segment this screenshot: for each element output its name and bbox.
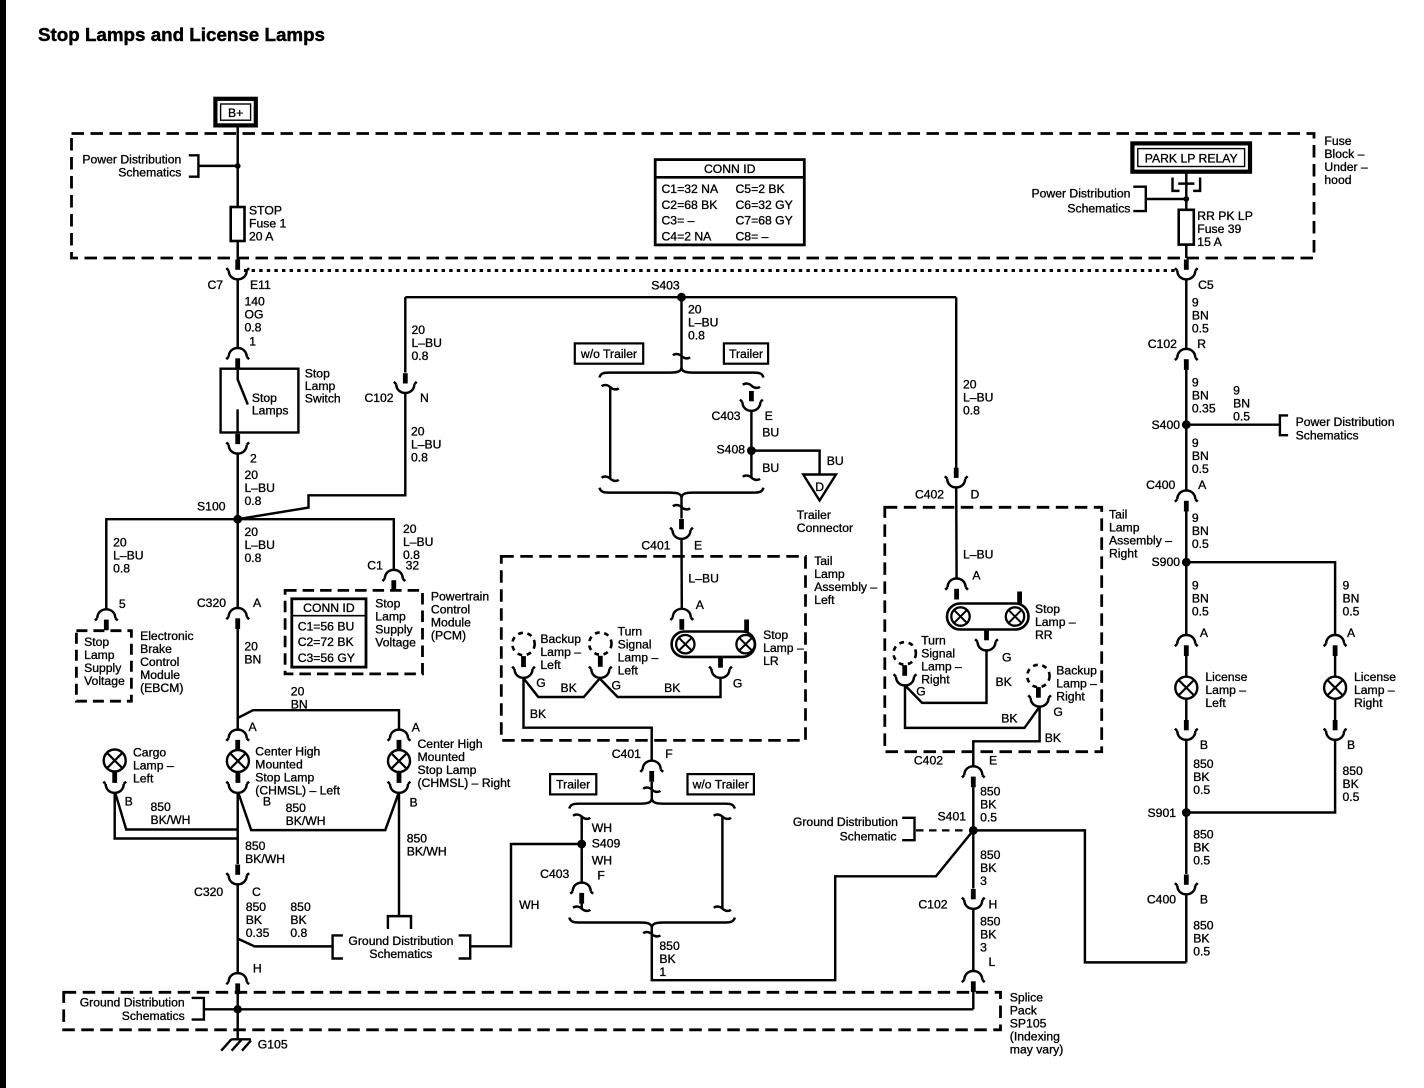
svg-text:License: License bbox=[1205, 670, 1247, 684]
stop lamp RR dual filament bbox=[947, 592, 1076, 643]
svg-text:L–BU: L–BU bbox=[963, 391, 994, 405]
svg-text:A: A bbox=[1200, 626, 1209, 640]
turn signal left pin bbox=[598, 656, 603, 667]
svg-text:Schematics: Schematics bbox=[1067, 201, 1130, 215]
backup right pin bbox=[1036, 687, 1041, 698]
svg-text:Schematics: Schematics bbox=[122, 1009, 185, 1023]
svg-text:CONN ID: CONN ID bbox=[704, 162, 756, 176]
EBCM dashed box: stop lamp supply voltage bbox=[76, 631, 131, 702]
svg-text:850: 850 bbox=[286, 801, 307, 815]
svg-text:G105: G105 bbox=[258, 1037, 288, 1051]
turn signal right connector G bbox=[894, 674, 926, 698]
connector C1 pin 32 (PCM) bbox=[367, 559, 419, 591]
svg-text:WH: WH bbox=[519, 898, 539, 912]
svg-text:SP105: SP105 bbox=[1010, 1016, 1047, 1030]
svg-text:20: 20 bbox=[963, 378, 977, 392]
svg-text:C400: C400 bbox=[1146, 478, 1175, 492]
svg-text:Left: Left bbox=[540, 658, 561, 672]
wire 850 BK 0.8 branch to GDS bracket bbox=[238, 939, 333, 947]
wire below C320-C bbox=[236, 884, 238, 973]
svg-text:BN: BN bbox=[1192, 388, 1209, 402]
svg-text:Control: Control bbox=[140, 655, 179, 669]
svg-text:PARK LP RELAY: PARK LP RELAY bbox=[1145, 151, 1238, 165]
svg-text:C3= –: C3= – bbox=[662, 214, 695, 228]
svg-text:0.5: 0.5 bbox=[1343, 790, 1360, 804]
svg-text:S900: S900 bbox=[1152, 555, 1181, 569]
svg-text:Ground Distribution: Ground Distribution bbox=[793, 815, 898, 829]
svg-text:BK: BK bbox=[246, 913, 262, 927]
svg-text:850: 850 bbox=[980, 784, 1001, 798]
svg-text:OG: OG bbox=[245, 307, 264, 321]
relay PARK LP RELAY bbox=[1132, 143, 1250, 171]
wire to license lamp left bbox=[1185, 656, 1187, 677]
svg-text:BK: BK bbox=[530, 707, 546, 721]
svg-text:850: 850 bbox=[290, 900, 311, 914]
svg-text:Right: Right bbox=[1354, 696, 1383, 710]
svg-text:Supply: Supply bbox=[84, 661, 122, 675]
svg-text:Trailer: Trailer bbox=[556, 778, 590, 792]
svg-text:H: H bbox=[253, 962, 262, 976]
svg-text:0.5: 0.5 bbox=[1193, 783, 1210, 797]
svg-text:Stop: Stop bbox=[375, 596, 400, 610]
Trailer tag box bbox=[724, 343, 768, 363]
fuse block label bbox=[1324, 134, 1368, 187]
svg-text:Power Distribution: Power Distribution bbox=[82, 152, 181, 166]
license lamp right bbox=[1324, 670, 1396, 710]
wire stop LR to turn signal bbox=[600, 678, 721, 697]
svg-text:Backup: Backup bbox=[540, 632, 581, 646]
svg-text:Lamp: Lamp bbox=[1109, 521, 1140, 535]
wire S408 to trailer connector bbox=[751, 451, 819, 475]
connector A (license left) bbox=[1175, 626, 1209, 656]
wire S400 to power distribution bracket bbox=[1186, 423, 1280, 425]
svg-text:Stop Lamps and License Lamps: Stop Lamps and License Lamps bbox=[38, 24, 325, 45]
svg-text:850: 850 bbox=[659, 939, 680, 953]
svg-text:L: L bbox=[989, 955, 996, 969]
svg-text:BN: BN bbox=[1192, 449, 1209, 463]
bracket: power distribution schematics (S400) bbox=[1280, 415, 1395, 442]
svg-text:WH: WH bbox=[592, 854, 612, 868]
wire C403-E to S408 bbox=[750, 411, 752, 478]
svg-text:BK/WH: BK/WH bbox=[286, 814, 326, 828]
svg-text:Lamp –: Lamp – bbox=[133, 758, 174, 772]
svg-text:(CHMSL) – Right: (CHMSL) – Right bbox=[418, 776, 511, 790]
svg-text:B: B bbox=[263, 794, 271, 808]
license lamp left bbox=[1175, 670, 1247, 710]
svg-text:C402: C402 bbox=[915, 487, 944, 501]
svg-text:CONN ID: CONN ID bbox=[303, 601, 355, 615]
splice S401 bbox=[938, 810, 978, 835]
wire S409 left to ground distribution bbox=[470, 844, 582, 946]
tail lamp assembly left dashed box bbox=[501, 556, 805, 740]
svg-text:Lamp: Lamp bbox=[814, 567, 845, 581]
wire bracket to relay node bbox=[1146, 198, 1187, 200]
svg-text:H: H bbox=[989, 897, 998, 911]
dotted harness separator line bbox=[244, 269, 1175, 272]
svg-text:9: 9 bbox=[1343, 579, 1350, 593]
svg-text:850: 850 bbox=[980, 848, 1001, 862]
wire C402-E to S401 bbox=[972, 787, 974, 830]
svg-text:Left: Left bbox=[133, 771, 154, 785]
connector A (CHMSL left) bbox=[226, 720, 257, 751]
svg-text:hood: hood bbox=[1324, 173, 1351, 187]
stop lamp LR connector G bbox=[709, 667, 742, 691]
svg-text:Block –: Block – bbox=[1324, 147, 1364, 161]
cargo lamp pin B bbox=[112, 772, 117, 783]
svg-text:Power Distribution: Power Distribution bbox=[1296, 415, 1395, 429]
connector C320 H bbox=[226, 962, 261, 994]
svg-text:850: 850 bbox=[980, 914, 1001, 928]
wire E11 140 OG 0.8 bbox=[236, 279, 238, 348]
wire S400 to C400-A bbox=[1185, 425, 1187, 491]
svg-text:9: 9 bbox=[1192, 296, 1199, 310]
svg-text:S409: S409 bbox=[592, 837, 621, 851]
svg-text:0.8: 0.8 bbox=[688, 328, 705, 342]
svg-text:C1=32 NA: C1=32 NA bbox=[662, 182, 719, 196]
svg-text:Fuse: Fuse bbox=[1324, 134, 1351, 148]
wire C102-N down and jog to S100 bbox=[238, 393, 406, 519]
svg-text:Schematics: Schematics bbox=[118, 166, 181, 180]
svg-text:L–BU: L–BU bbox=[245, 481, 276, 495]
PCM conn id table bbox=[292, 599, 366, 667]
svg-text:0.8: 0.8 bbox=[245, 320, 262, 334]
svg-text:Lamp –: Lamp – bbox=[921, 659, 962, 673]
svg-text:0.35: 0.35 bbox=[1192, 401, 1216, 415]
connector A (tail left) bbox=[670, 598, 704, 630]
CHMSL right lamp bbox=[388, 737, 511, 790]
svg-text:Powertrain: Powertrain bbox=[431, 590, 489, 604]
bracket: ground distribution schematics (bottom left) bbox=[80, 995, 204, 1023]
connector 5 (EBCM) bbox=[95, 597, 126, 630]
svg-text:140: 140 bbox=[245, 294, 266, 308]
stop lamp RR pin G bbox=[984, 630, 989, 641]
svg-text:9: 9 bbox=[1192, 579, 1199, 593]
svg-text:20 A: 20 A bbox=[249, 229, 274, 243]
svg-text:0.5: 0.5 bbox=[1193, 945, 1210, 959]
svg-text:BK: BK bbox=[1193, 841, 1209, 855]
svg-text:0.8: 0.8 bbox=[411, 450, 428, 464]
svg-text:C7: C7 bbox=[208, 278, 224, 292]
turn signal right pin bbox=[902, 665, 907, 676]
svg-text:A: A bbox=[696, 598, 705, 612]
svg-text:0.5: 0.5 bbox=[1192, 537, 1209, 551]
connector A (license right) bbox=[1324, 626, 1356, 656]
svg-text:Schematic: Schematic bbox=[840, 829, 897, 843]
connector C402 E bbox=[914, 753, 997, 787]
svg-text:C2=72 BK: C2=72 BK bbox=[298, 635, 354, 649]
backup right connector G bbox=[1028, 695, 1063, 718]
svg-text:L–BU: L–BU bbox=[963, 547, 994, 561]
svg-text:Power Distribution: Power Distribution bbox=[1031, 187, 1130, 201]
svg-text:Fuse 39: Fuse 39 bbox=[1197, 222, 1241, 236]
wire S403 horizontal bbox=[405, 296, 956, 298]
wire turn signal to backup bbox=[524, 678, 601, 697]
svg-text:BK: BK bbox=[1343, 777, 1359, 791]
svg-text:w/o Trailer: w/o Trailer bbox=[580, 347, 637, 361]
svg-text:BN: BN bbox=[291, 697, 308, 711]
connector C402 D bbox=[915, 468, 980, 502]
backup lamp right (dashed) bbox=[1027, 663, 1097, 703]
svg-text:Lamps: Lamps bbox=[252, 404, 289, 418]
wire cargo B down/right 850 BK/WH bbox=[115, 793, 238, 839]
svg-text:Lamp: Lamp bbox=[375, 609, 406, 623]
svg-text:Voltage: Voltage bbox=[84, 674, 125, 688]
wire S100 down to C320-A bbox=[236, 519, 238, 608]
svg-text:20: 20 bbox=[245, 468, 259, 482]
svg-text:Lamp –: Lamp – bbox=[1354, 683, 1395, 697]
svg-text:BK: BK bbox=[1193, 932, 1209, 946]
svg-text:S400: S400 bbox=[1152, 418, 1181, 432]
trailer connector triangle D bbox=[803, 475, 836, 501]
svg-text:L–BU: L–BU bbox=[245, 538, 276, 552]
PCM stop lamp supply voltage text bbox=[375, 596, 416, 649]
svg-text:Left: Left bbox=[814, 593, 835, 607]
svg-text:1: 1 bbox=[659, 965, 666, 979]
wire S900 to license right branch bbox=[1186, 562, 1335, 635]
svg-text:Splice: Splice bbox=[1010, 990, 1043, 1004]
svg-text:Center High: Center High bbox=[255, 745, 320, 759]
wire brace to C401-E bbox=[680, 498, 682, 519]
svg-text:Brake: Brake bbox=[140, 642, 172, 656]
svg-text:20: 20 bbox=[412, 323, 426, 337]
svg-text:C320: C320 bbox=[194, 885, 223, 899]
svg-text:BK: BK bbox=[980, 861, 996, 875]
svg-text:L–BU: L–BU bbox=[688, 572, 719, 586]
backup left pin bbox=[521, 656, 526, 667]
svg-text:20: 20 bbox=[244, 640, 258, 654]
svg-text:A: A bbox=[249, 720, 258, 734]
svg-text:20: 20 bbox=[411, 424, 425, 438]
connector C102 H bbox=[918, 889, 997, 911]
tail lamp assembly right dashed box bbox=[885, 507, 1102, 751]
svg-text:Lamp –: Lamp – bbox=[1205, 683, 1246, 697]
under-brace (trailer options bottom) bbox=[600, 488, 764, 498]
svg-text:C2=68 BK: C2=68 BK bbox=[662, 198, 718, 212]
svg-text:0.5: 0.5 bbox=[1192, 322, 1209, 336]
svg-text:Left: Left bbox=[618, 664, 639, 678]
wire 20 BN down bbox=[236, 629, 238, 730]
connector B (license left) bbox=[1175, 720, 1208, 752]
wire S403 down to trailer option bbox=[680, 297, 682, 368]
splice S408 bbox=[717, 443, 756, 457]
svg-text:BN: BN bbox=[244, 653, 261, 667]
wire C401-F to lower option brace bbox=[650, 782, 653, 799]
svg-text:Signal: Signal bbox=[618, 638, 652, 652]
svg-text:850: 850 bbox=[245, 839, 266, 853]
svg-text:0.5: 0.5 bbox=[1193, 854, 1210, 868]
wire S901 to C400-B bbox=[1185, 813, 1187, 875]
w/o Trailer tag box (lower) bbox=[688, 774, 754, 794]
wire into splice pack bbox=[236, 994, 238, 1039]
fuse STOP Fuse 1 20A bbox=[231, 203, 287, 243]
svg-text:BU: BU bbox=[762, 425, 779, 439]
wire S403 line down to C402-D bbox=[955, 297, 957, 467]
svg-text:Module: Module bbox=[431, 616, 471, 630]
svg-text:850: 850 bbox=[246, 900, 267, 914]
dashed reference wire to S401 bbox=[916, 829, 968, 831]
svg-text:BN: BN bbox=[1343, 592, 1360, 606]
svg-text:A: A bbox=[972, 569, 981, 583]
svg-text:0.5: 0.5 bbox=[1192, 605, 1209, 619]
CHMSL right pin B bbox=[397, 772, 402, 783]
svg-text:C: C bbox=[252, 885, 261, 899]
svg-text:Tail: Tail bbox=[814, 554, 832, 568]
svg-text:E: E bbox=[765, 409, 773, 423]
svg-text:0.8: 0.8 bbox=[113, 561, 130, 575]
CHMSL left pin B bbox=[236, 772, 241, 783]
svg-text:WH: WH bbox=[592, 821, 612, 835]
svg-text:Lamp –: Lamp – bbox=[1035, 615, 1076, 629]
wire license right to connector B bbox=[1334, 699, 1336, 720]
over-brace (trailer options top) bbox=[600, 368, 764, 378]
svg-text:20: 20 bbox=[113, 535, 127, 549]
svg-text:C6=32 GY: C6=32 GY bbox=[736, 198, 793, 212]
svg-text:Stop: Stop bbox=[1035, 602, 1060, 616]
w/o Trailer tag box bbox=[575, 343, 643, 363]
svg-text:BK/WH: BK/WH bbox=[407, 844, 447, 858]
wire bracket to node bbox=[198, 165, 237, 167]
connector C320 C bbox=[194, 865, 261, 900]
svg-text:0.8: 0.8 bbox=[412, 349, 429, 363]
svg-text:Pack: Pack bbox=[1010, 1003, 1038, 1017]
svg-text:15 A: 15 A bbox=[1197, 235, 1222, 249]
cargo connector B bbox=[103, 782, 132, 809]
svg-text:Center High: Center High bbox=[418, 737, 483, 751]
svg-text:0.5: 0.5 bbox=[1233, 410, 1250, 424]
svg-text:0.8: 0.8 bbox=[245, 494, 262, 508]
svg-text:B: B bbox=[125, 794, 133, 808]
node: power distribution tap bbox=[235, 163, 241, 169]
svg-text:BK/WH: BK/WH bbox=[151, 813, 191, 827]
svg-text:C102: C102 bbox=[364, 391, 393, 405]
svg-text:0.8: 0.8 bbox=[290, 926, 307, 940]
wire 20 BN branch to CHMSL right bbox=[238, 710, 399, 730]
svg-text:BK: BK bbox=[561, 681, 577, 695]
connector C7 / E11 bbox=[208, 260, 272, 292]
turn signal left connector G bbox=[589, 667, 621, 693]
svg-text:Lamp –: Lamp – bbox=[618, 651, 659, 665]
ground G105 bbox=[221, 1037, 288, 1051]
svg-text:C5=2 BK: C5=2 BK bbox=[736, 182, 785, 196]
svg-text:850: 850 bbox=[1343, 764, 1364, 778]
scan edge black bar bbox=[0, 0, 6, 1088]
splice S403 bbox=[651, 278, 686, 301]
backup lamp left (dashed) bbox=[512, 632, 581, 672]
svg-text:BU: BU bbox=[827, 454, 844, 468]
svg-text:C4=2 NA: C4=2 NA bbox=[662, 229, 713, 243]
wire into splice pack bus bbox=[972, 992, 974, 1010]
wire C400-A to S900 bbox=[1185, 512, 1187, 563]
svg-text:RR PK LP: RR PK LP bbox=[1197, 209, 1253, 223]
wire fuse 39 down to C5 bbox=[1185, 245, 1187, 258]
svg-text:BK: BK bbox=[290, 913, 306, 927]
svg-text:B: B bbox=[1200, 738, 1208, 752]
svg-text:BK: BK bbox=[1193, 770, 1209, 784]
svg-text:C400: C400 bbox=[1147, 893, 1176, 907]
turn signal lamp left (dashed) bbox=[589, 625, 658, 678]
connector C102 R bbox=[1148, 337, 1206, 370]
svg-text:C403: C403 bbox=[540, 867, 569, 881]
svg-text:BK: BK bbox=[980, 797, 996, 811]
svg-text:BN: BN bbox=[1192, 524, 1209, 538]
svg-text:Switch: Switch bbox=[305, 392, 341, 406]
B+ terminal box bbox=[215, 99, 255, 126]
wire C402-D into assembly bbox=[955, 487, 958, 578]
turn signal lamp right (dashed) bbox=[894, 633, 963, 686]
svg-text:C8= –: C8= – bbox=[736, 229, 769, 243]
svg-text:Turn: Turn bbox=[921, 633, 946, 647]
svg-text:C320: C320 bbox=[197, 596, 226, 610]
svg-text:0.5: 0.5 bbox=[1343, 605, 1360, 619]
svg-text:0.35: 0.35 bbox=[246, 926, 270, 940]
stop lamp LR dual filament bbox=[672, 620, 804, 668]
CONN ID table (top) bbox=[655, 160, 804, 245]
connector 1 (stop lamp switch top) bbox=[226, 348, 249, 369]
svg-text:Lamp –: Lamp – bbox=[540, 645, 581, 659]
svg-text:2: 2 bbox=[250, 452, 257, 466]
svg-text:850: 850 bbox=[1193, 757, 1214, 771]
splice S409 bbox=[577, 837, 620, 851]
connector A (CHMSL right) bbox=[388, 720, 421, 750]
svg-text:A: A bbox=[1347, 626, 1356, 640]
PCM dashed box bbox=[285, 590, 422, 674]
svg-text:Lamp: Lamp bbox=[84, 648, 115, 662]
svg-text:Turn: Turn bbox=[618, 625, 643, 639]
svg-text:RR: RR bbox=[1035, 628, 1053, 642]
svg-text:Schematics: Schematics bbox=[369, 947, 432, 961]
CHMSL left connector B bbox=[226, 782, 271, 809]
svg-text:9: 9 bbox=[1192, 375, 1199, 389]
option wire trailer (lower left vertical) with S409 bbox=[573, 815, 612, 883]
wire S401 right to license rail bbox=[973, 830, 1186, 962]
wire S403 line down to C102-N bbox=[404, 297, 406, 372]
svg-text:3: 3 bbox=[980, 940, 987, 954]
wire S900 down to license left bbox=[1185, 562, 1187, 635]
stop lamp LR pin G bbox=[718, 657, 723, 668]
wire stop RR to turn signal right bbox=[905, 650, 987, 703]
svg-text:C401: C401 bbox=[612, 747, 641, 761]
under-brace (lower options bottom) bbox=[569, 918, 735, 928]
svg-text:0.8: 0.8 bbox=[963, 404, 980, 418]
wire S100 to PCM bbox=[238, 519, 394, 570]
svg-text:Backup: Backup bbox=[1056, 663, 1097, 677]
svg-text:S901: S901 bbox=[1148, 806, 1177, 820]
svg-text:may vary): may vary) bbox=[1010, 1042, 1064, 1056]
svg-text:C1=56 BU: C1=56 BU bbox=[298, 619, 355, 633]
svg-text:F: F bbox=[597, 868, 604, 882]
svg-text:Stop: Stop bbox=[84, 635, 109, 649]
option wire trailer side: tick + C403-E bbox=[711, 384, 772, 423]
svg-text:G: G bbox=[536, 676, 545, 690]
wire C5 to C102-R bbox=[1185, 279, 1187, 349]
bracket: ground distribution schematic (S401) bbox=[793, 815, 915, 843]
svg-text:License: License bbox=[1354, 670, 1396, 684]
connector B (license right) bbox=[1324, 720, 1355, 752]
connector C400 A bbox=[1146, 478, 1207, 512]
connector C102 L (splice pack) bbox=[962, 971, 985, 992]
svg-text:S408: S408 bbox=[717, 443, 746, 457]
svg-text:0.5: 0.5 bbox=[980, 810, 997, 824]
wire C401-E into assembly bbox=[680, 539, 683, 609]
svg-text:32: 32 bbox=[406, 559, 420, 573]
CHMSL right connector B bbox=[388, 782, 418, 810]
svg-text:L–BU: L–BU bbox=[688, 315, 719, 329]
stop lamp switch box bbox=[221, 369, 299, 433]
svg-text:LR: LR bbox=[763, 654, 779, 668]
wire S100 to EBCM bbox=[106, 519, 237, 609]
connector A (tail right) bbox=[945, 569, 981, 600]
svg-text:F: F bbox=[665, 747, 672, 761]
